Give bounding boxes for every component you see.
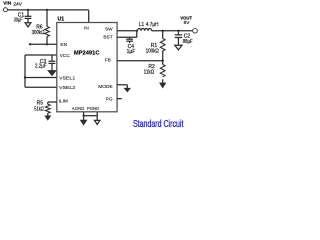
svg-text:IN: IN <box>84 25 89 31</box>
svg-text:MP2491C: MP2491C <box>74 50 100 56</box>
svg-text:SW: SW <box>105 27 113 33</box>
svg-text:100kΩ: 100kΩ <box>146 48 159 54</box>
svg-text:24V: 24V <box>13 1 22 7</box>
svg-text:MODE: MODE <box>98 84 112 90</box>
svg-text:300kΩ: 300kΩ <box>32 30 45 36</box>
svg-text:Standard Circuit: Standard Circuit <box>133 119 184 130</box>
svg-text:BST: BST <box>103 34 112 40</box>
svg-text:L1: L1 <box>139 22 145 28</box>
svg-text:AGND: AGND <box>72 106 85 112</box>
svg-text:5V: 5V <box>184 20 191 26</box>
svg-text:PGND: PGND <box>87 106 100 112</box>
svg-text:2.2µF: 2.2µF <box>35 64 47 70</box>
svg-text:VIN: VIN <box>3 1 12 7</box>
svg-text:51kΩ: 51kΩ <box>34 106 44 112</box>
svg-text:VSEL2: VSEL2 <box>59 85 76 91</box>
svg-text:U1: U1 <box>58 17 65 23</box>
svg-text:1µF: 1µF <box>127 49 136 55</box>
svg-text:FB: FB <box>105 57 111 63</box>
svg-text:VSEL1: VSEL1 <box>59 76 76 82</box>
svg-text:EN: EN <box>60 42 67 48</box>
svg-text:PG: PG <box>106 96 113 102</box>
svg-text:VCC: VCC <box>60 53 71 59</box>
svg-text:88µF: 88µF <box>183 39 193 45</box>
svg-text:4.7µH: 4.7µH <box>146 22 159 28</box>
svg-text:11kΩ: 11kΩ <box>144 70 155 76</box>
svg-text:30µF: 30µF <box>14 18 23 24</box>
svg-text:ILIM: ILIM <box>59 98 68 104</box>
